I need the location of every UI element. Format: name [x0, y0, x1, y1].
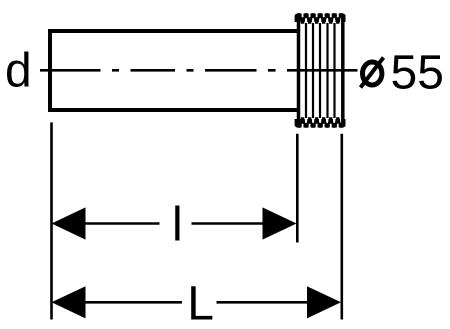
dimension l line — [84, 222, 264, 225]
svg-text:d: d — [5, 44, 32, 97]
svg-text:L: L — [187, 277, 214, 329]
corrugated seal left edge — [297, 17, 301, 124]
corrugated seal right edge — [341, 17, 345, 124]
corrugated seal top scallops — [296, 15, 345, 22]
white notches between bottom scallop bumps — [303, 124, 338, 131]
label L — [187, 277, 214, 329]
label d — [5, 44, 32, 97]
corrugated seal bottom scallop valley legs — [303, 117, 338, 123]
pipe body outline — [50, 31, 297, 110]
svg-text:l: l — [172, 198, 183, 251]
corrugated seal top scallop valley legs — [303, 18, 338, 24]
corrugated seal bottom scallops — [296, 119, 345, 126]
label l — [172, 198, 183, 251]
extension line middle (end of pipe body) — [296, 134, 299, 243]
svg-text:55: 55 — [391, 46, 444, 99]
dimension l left arrowhead — [52, 207, 86, 239]
dimension L line — [84, 301, 308, 304]
label 55 — [391, 46, 444, 99]
dimension L left arrowhead — [52, 286, 86, 318]
corrugated seal ribs — [306, 23, 335, 118]
white notches between top scallop bumps — [303, 10, 338, 17]
dimension L right arrowhead — [307, 286, 341, 318]
extension line left (at x=51.5) — [50, 122, 53, 319]
extension line right (end of seal) — [340, 134, 343, 320]
centerline (dash-dot axis) — [40, 69, 358, 72]
label ø (drawn) — [361, 58, 384, 88]
dimension l right arrowhead — [263, 207, 297, 239]
